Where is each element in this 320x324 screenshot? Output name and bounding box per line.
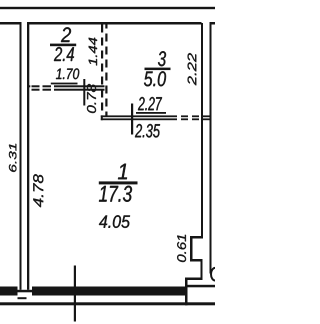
node room3 label underline [145,68,171,71]
wire right inner wall line lower [201,259,203,280]
wire room2 bottom wall upper line stub at wall [28,85,31,87]
wire right outer wall line [210,22,212,274]
node dimension tick 1.70/0.78 [83,79,85,106]
node dimension 0.78 rotated [87,84,96,113]
wire foot lower stub line [18,297,27,299]
wire top outer wall [0,7,215,9]
wire dashed partition wall left line [102,25,106,116]
wire right inner wall line upper [201,23,203,238]
node dimension tick 2.27/2.35 [131,104,133,135]
wire room2 bottom wall upper line solid [54,85,105,87]
wire room3 bottom wall lower line [101,118,177,120]
wire dashed partition wall right line [105,25,107,116]
node dimension 2.27 underline [136,112,166,114]
wire room3 bottom wall left cap [101,115,103,120]
node dimension 1.70 underline [51,83,78,85]
wire left wall outer line [20,23,22,287]
node label room1 number "1" [118,164,127,180]
node dimension 2.22 rotated [188,53,197,85]
wire doorway lintel line [186,278,203,281]
wire inner top wall left segment [0,22,22,25]
node dimension tick 4.05 bottom [74,266,76,322]
wire room3 bottom wall dashed right part [181,115,188,117]
node dimension 2.35 [135,124,160,138]
wire room2 bottom wall dashes [32,85,40,87]
wire pilaster left line [190,236,193,262]
wire room3 bottom wall upper line [101,115,177,117]
node dimension 2.27 [138,97,162,110]
node dimension 4.05 [99,215,130,228]
wire bottom thin outline [0,302,215,305]
wire inner top wall right stub [211,22,216,25]
node label room1 area "17.3" [99,186,132,202]
node room1 label underline [99,181,138,184]
node label room2 area "2.4" [54,47,74,61]
node left wall foot notch [16,287,34,296]
node label room2 number "2" [61,27,71,42]
node dimension 0.61 rotated [177,235,186,262]
node dimension 1.44 rotated [89,38,97,66]
wire doorway sill line [186,285,215,288]
wire thick bottom wall [0,287,186,296]
node dimension 1.70 [56,68,79,79]
wire pilaster top step [191,236,204,239]
node clipped glyph at right edge [211,268,219,281]
wire inner top wall main segment [27,22,202,25]
node dimension 6.31 rotated [9,144,16,172]
node room2 label underline [50,44,76,47]
wire room2 bottom wall lower line solid [54,89,105,91]
node label room3 area "5.0" [144,71,166,86]
wire left wall inner line [27,23,29,287]
wire doorway jamb vertical [185,278,188,306]
wire pilaster bottom step [190,259,202,262]
node label room3 number "3" [158,51,166,66]
node dimension 4.78 rotated [33,174,43,207]
